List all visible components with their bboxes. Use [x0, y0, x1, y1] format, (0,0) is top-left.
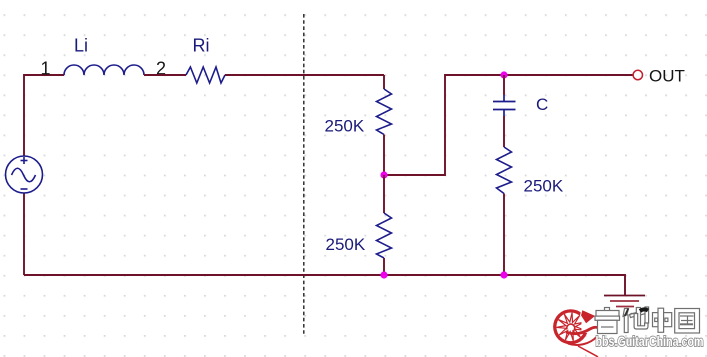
watermark dragon logo [553, 309, 602, 357]
wire left vertical top (source to node 1 corner) [24, 75, 64, 156]
junction dot cap branch top [500, 71, 507, 78]
wire divider top vertical [383, 75, 385, 89]
inductor Li [64, 65, 144, 75]
wire mid node to right riser [384, 75, 633, 175]
junction dot R2 bottom [380, 271, 387, 278]
junction dot R3 bottom [500, 271, 507, 278]
wire left vertical bottom (source to bottom rail) [23, 193, 25, 275]
svg-text:Li: Li [74, 36, 88, 56]
OUT terminal pin circle [633, 70, 642, 79]
watermark text 吉 (outlined chunky glyph) [595, 308, 620, 334]
capacitor C [493, 95, 516, 116]
dark accent strokes on 他 [625, 309, 648, 317]
resistor Ri [186, 67, 225, 83]
wire Ri to divider top [225, 74, 384, 76]
watermark text 中 (outlined chunky glyph) [653, 308, 672, 332]
svg-text:250K: 250K [325, 117, 365, 136]
resistor R2 250K (lower divider) [377, 213, 392, 258]
resistor R2 250K (lower divider) wire top [383, 175, 385, 213]
svg-text:1: 1 [41, 59, 51, 79]
watermark text 国 (outlined chunky glyph) [675, 309, 700, 334]
wire capacitor to R3 [503, 116, 505, 147]
resistor R1 250K (upper divider) [377, 89, 392, 135]
svg-text:250K: 250K [326, 235, 366, 254]
junction dot mid divider node [380, 171, 387, 178]
svg-text:C: C [536, 95, 548, 114]
dashed section divider line [303, 14, 305, 334]
svg-text:OUT: OUT [649, 67, 685, 86]
wire top node to capacitor [503, 75, 505, 95]
wire R1 to mid node [383, 135, 385, 176]
watermark text 他 (outlined chunky glyph) [623, 307, 649, 333]
svg-text:Ri: Ri [193, 36, 210, 56]
wire R2 to bottom rail [383, 258, 385, 275]
wire between Li and Ri [144, 74, 186, 76]
svg-text:250K: 250K [524, 177, 564, 196]
svg-text:bbs.GuitarChina.com: bbs.GuitarChina.com [596, 333, 704, 349]
wire R3 to bottom rail [503, 194, 505, 276]
AC source V1 [6, 156, 43, 193]
resistor R3 250K (output load) [497, 147, 512, 194]
ground symbol [604, 296, 645, 307]
bottom rail wire [24, 275, 625, 295]
